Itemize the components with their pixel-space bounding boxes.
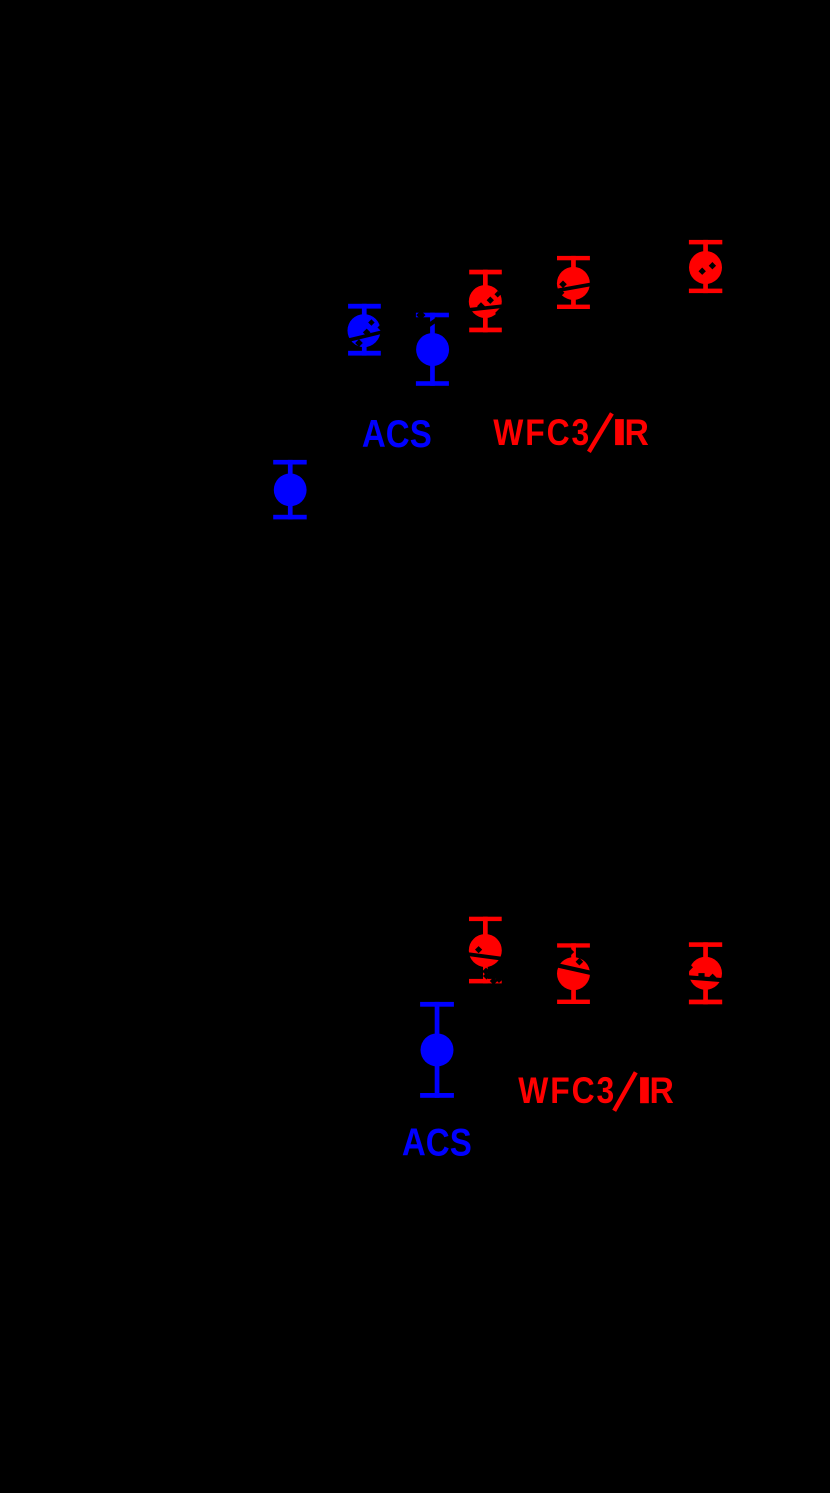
svg-text:R: R: [650, 1069, 675, 1111]
blue point B1 error bar: [420, 1002, 454, 1098]
svg-text:R: R: [625, 411, 650, 453]
red point T3 marker: [689, 251, 722, 284]
svg-text:ACS: ACS: [402, 1120, 472, 1164]
svg-text:WFC3: WFC3: [518, 1070, 616, 1112]
red point T2 marker: [557, 267, 590, 300]
blue point T3 marker: [274, 474, 307, 507]
black spectrum slash over T1: [346, 330, 383, 342]
black spectrum slash over T2 stem: [426, 317, 439, 328]
blue point T2 marker: [416, 333, 449, 366]
blue point T2 error bar: [416, 313, 449, 386]
blue point B1 marker: [421, 1033, 454, 1066]
black diamonds over red B3: [686, 964, 717, 982]
label WFC3/IR (bottom): [518, 1070, 616, 1112]
label WFC3/IR (top): [493, 412, 591, 454]
red point B1 marker: [469, 934, 502, 967]
black diamond over red T2: [559, 280, 567, 288]
red point B3 marker: [689, 957, 722, 990]
black diamonds over red T1: [477, 291, 505, 318]
black diamonds over red B2: [567, 948, 583, 965]
black spectrum slash over red T1: [468, 304, 502, 311]
black diamond over T2 cap: [416, 310, 425, 319]
label ACS (bottom): [402, 1120, 472, 1164]
label ACS (top): [362, 411, 432, 455]
red point B2 marker: [557, 957, 590, 990]
black spectrum slash over red T2: [556, 283, 591, 293]
black spectrum slash over red B2: [556, 963, 592, 975]
red point T1 error bar: [469, 270, 502, 333]
black diamonds over T1: [355, 319, 384, 347]
red point T2 error bar: [557, 256, 590, 309]
svg-text:WFC3: WFC3: [493, 412, 591, 454]
red point B1 error bar: [469, 917, 502, 984]
blue point T1 marker: [348, 314, 381, 347]
blue point T1 error bar: [348, 304, 381, 356]
red point B3 error bar: [689, 942, 722, 1004]
black spectrum slash over red B1: [469, 952, 503, 960]
black spectrum slash over red B3: [688, 975, 723, 982]
black diamonds over red T3: [699, 262, 717, 275]
black diamonds over red B1: [475, 946, 503, 985]
svg-text:ACS: ACS: [362, 411, 432, 455]
blue point T3 error bar: [273, 460, 307, 520]
red point T3 error bar: [689, 240, 722, 293]
red point T1 marker: [469, 285, 502, 318]
red point B2 error bar: [557, 943, 590, 1004]
